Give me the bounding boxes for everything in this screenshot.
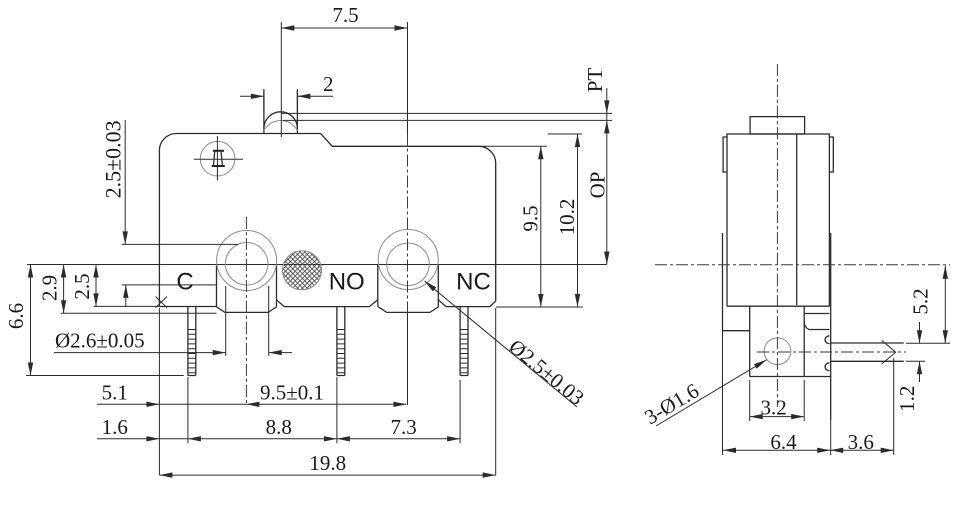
svg-text:7.3: 7.3 [390, 415, 416, 439]
svg-text:19.8: 19.8 [309, 451, 346, 475]
lever free position line [281, 112, 612, 114]
NC hole inner circle dia 2.5 [387, 243, 430, 286]
svg-text:2.5±0.03: 2.5±0.03 [100, 120, 125, 198]
svg-text:3.6: 3.6 [848, 430, 874, 454]
dim 5.2 [944, 266, 946, 343]
dim 5.1 and 9.5+-0.1 row [97, 403, 406, 405]
C hole boss with chamfered bottom [217, 265, 277, 313]
side view body outline [727, 134, 829, 306]
terminal pin C [188, 307, 196, 376]
plunger dome free position arc [264, 112, 298, 128]
dim 10.2 total height [577, 134, 579, 307]
common hole inner circle dia 2.6 [225, 242, 268, 285]
side view left bracket edge [722, 233, 724, 331]
svg-text:2.5: 2.5 [70, 273, 94, 299]
plunger sides [264, 90, 298, 134]
side view internal vertical line [796, 134, 798, 305]
svg-text:5.2: 5.2 [909, 288, 933, 314]
side view right bracket edge [830, 233, 832, 420]
dim 19.8 overall [159, 474, 495, 476]
svg-text:10.2: 10.2 [555, 199, 579, 236]
side view right step lines [804, 314, 829, 330]
mounting hole circle [200, 141, 235, 176]
svg-text:2: 2 [323, 72, 334, 96]
dim 1.6 8.8 7.3 row [97, 438, 460, 440]
svg-text:8.8: 8.8 [266, 415, 292, 439]
dim 6.6 [30, 265, 32, 376]
rivet inside mounting hole [212, 151, 225, 166]
svg-text:9.5±0.1: 9.5±0.1 [260, 381, 324, 405]
svg-text:C: C [176, 269, 193, 296]
crosshatched circle (button window) [283, 251, 322, 290]
NO terminal plate with chamfered corners [277, 265, 378, 307]
svg-text:2.9: 2.9 [38, 275, 62, 301]
dim 2.9 [63, 265, 65, 314]
C terminal plate [159, 265, 216, 307]
svg-text:1.6: 1.6 [102, 415, 128, 439]
svg-text:9.5: 9.5 [519, 205, 543, 231]
dim OP operating position [604, 252, 609, 265]
side view top-left rib [723, 137, 727, 172]
dim PT pretravel [606, 88, 608, 265]
svg-text:NO: NO [329, 269, 365, 296]
svg-text:3.2: 3.2 [760, 396, 786, 420]
side view button [750, 117, 805, 134]
lever operating position line [283, 119, 612, 121]
common hole outer circle [217, 231, 277, 291]
NC hole outer circle [378, 230, 438, 290]
dim 2.5+-0.03 left [124, 120, 126, 244]
side view bent common terminal [831, 343, 904, 361]
side view hook detents [825, 336, 829, 371]
dim 9.5 body height right [540, 146, 542, 307]
switch body outline (front view) [159, 133, 495, 306]
dim 3.2 blade width [750, 416, 805, 418]
svg-text:NC: NC [456, 269, 491, 296]
dim 7.5 plunger to NC hole [281, 27, 407, 29]
side view vertical centerline [776, 64, 778, 407]
common hole centerline [245, 217, 247, 405]
side view top-right rib [829, 137, 833, 172]
blade hole horizontal centerline [757, 351, 906, 353]
dim 1.2 [919, 322, 921, 343]
blade hole dia 1.6 [764, 338, 791, 365]
dim 2.5 left small [95, 265, 97, 307]
mounting hole crosshair [194, 136, 243, 181]
svg-text:OP: OP [586, 172, 610, 199]
leader dia 2.5+-0.03 NC hole [425, 281, 578, 407]
extension lines below front view [158, 308, 160, 475]
dim 6.4 and 3.6 row [723, 449, 894, 451]
terminal pin NC [460, 307, 468, 376]
svg-text:5.1: 5.1 [102, 381, 128, 405]
terminal band top edge / horizontal reference line [27, 264, 607, 266]
svg-text:Ø2.6±0.05: Ø2.6±0.05 [55, 329, 145, 353]
NC terminal plate with chamfered corners [438, 300, 495, 307]
terminal pin NO [337, 307, 345, 376]
side view blade terminal block [750, 306, 831, 376]
plunger centerline [280, 22, 282, 137]
svg-text:PT: PT [583, 68, 607, 93]
side view horizontal centerline [655, 264, 950, 266]
NC hole boss with chamfered bottom [378, 265, 438, 313]
svg-text:6.4: 6.4 [770, 430, 797, 454]
dim 2 plunger width [240, 95, 264, 97]
leader 3-dia1.6 blade holes [656, 360, 767, 426]
plunger dome operating position arc [264, 120, 298, 130]
chamfer cross at body bottom-left corner [156, 297, 168, 308]
svg-text:1.2: 1.2 [895, 386, 919, 412]
svg-text:6.6: 6.6 [4, 303, 28, 329]
svg-text:7.5: 7.5 [332, 3, 358, 27]
